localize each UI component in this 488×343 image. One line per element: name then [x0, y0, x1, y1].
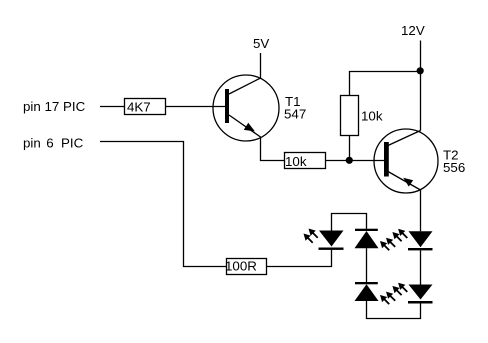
wire T2 emitter down to LED D3 — [420, 190, 422, 231]
svg-text:547: 547 — [284, 107, 306, 122]
wire 4K7 to T1 base — [166, 106, 226, 108]
transistor T1 emitter stroke with arrow — [229, 115, 261, 137]
transistor T2 collector stroke — [388, 131, 421, 146]
resistor 10k (horizontal) — [285, 153, 326, 169]
wire D3 cathode to D5 anode — [420, 250, 422, 284]
LED D1 (down-pointing) — [319, 231, 344, 247]
transistor T1 circle — [213, 75, 279, 141]
wire 100R to LED D1 cathode — [267, 250, 332, 267]
wire 5V to T1 collector — [260, 53, 262, 78]
transistor T1 collector stroke — [229, 78, 261, 94]
wire 10k to T2 base — [326, 160, 385, 162]
wire top interconnect D1 anode to D2 cathode — [332, 214, 367, 231]
svg-text:10k: 10k — [361, 109, 383, 124]
LED D4/D5 light arrows — [380, 295, 389, 304]
wire 12V rail down to T2 collector — [420, 41, 422, 131]
svg-text:10k: 10k — [285, 154, 307, 169]
wire pin17 to resistor 4K7 — [100, 106, 125, 108]
LED D1 light arrows — [309, 229, 318, 238]
junction dot on 12V rail — [417, 67, 424, 74]
junction dot base node — [346, 157, 353, 164]
wire pin6 right, down, to 100R — [100, 142, 227, 267]
svg-text:pin 17 PIC: pin 17 PIC — [23, 99, 86, 114]
LED D2 (up-pointing) — [355, 229, 378, 231]
resistor 4K7 — [125, 99, 166, 115]
wire T1 emitter down and right to 10k — [261, 137, 285, 161]
wire resistor bottom to base node — [349, 136, 351, 161]
LED D3 (down-pointing) — [409, 231, 433, 247]
LED D2/D3 light arrows — [380, 241, 389, 250]
svg-text:5V: 5V — [253, 36, 269, 51]
svg-text:556: 556 — [443, 160, 465, 175]
transistor T1 base bar — [225, 89, 229, 123]
wire D2 anode to D4 cathode — [366, 248, 368, 282]
resistor 100R — [227, 259, 267, 275]
svg-text:4K7: 4K7 — [127, 100, 151, 115]
LED D5 (down-pointing) — [409, 285, 433, 300]
wire D4 anode to bottom node — [367, 301, 421, 319]
svg-text:pin 6 PIC: pin 6 PIC — [23, 136, 84, 151]
transistor T2 circle — [374, 129, 438, 193]
svg-text:100R: 100R — [225, 259, 257, 274]
LED D4 (up-pointing) — [355, 282, 378, 284]
resistor 10k (vertical pull-up) — [341, 96, 359, 136]
transistor T2 base bar — [384, 142, 389, 177]
svg-text:12V: 12V — [401, 23, 425, 38]
wire 12V rail to resistor R 10k top — [350, 72, 421, 96]
transistor T2 emitter stroke with arrow (PNP) — [388, 172, 421, 191]
